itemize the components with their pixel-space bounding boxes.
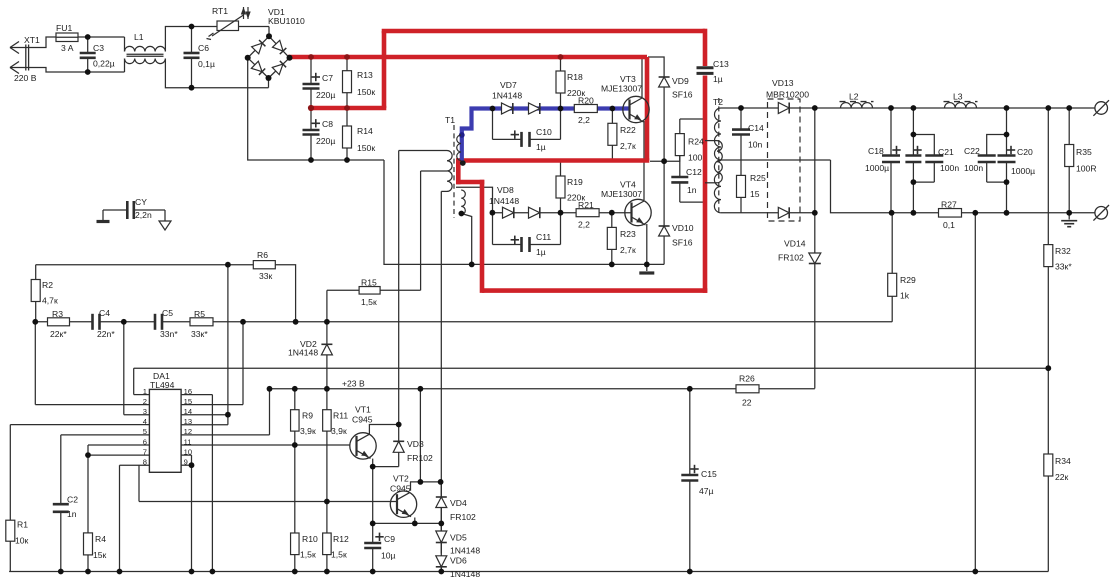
svg-text:VT2: VT2 <box>393 474 409 484</box>
svg-text:1µ: 1µ <box>536 247 546 257</box>
svg-text:10к: 10к <box>15 536 29 546</box>
svg-text:C6: C6 <box>198 43 209 53</box>
svg-text:R21: R21 <box>578 200 594 210</box>
svg-text:220µ: 220µ <box>316 136 335 146</box>
svg-text:VD3: VD3 <box>407 439 424 449</box>
svg-text:VD10: VD10 <box>672 223 694 233</box>
svg-text:10n: 10n <box>748 140 763 150</box>
svg-text:C9: C9 <box>384 534 395 544</box>
svg-text:SF16: SF16 <box>672 90 693 100</box>
svg-text:C15: C15 <box>701 469 717 479</box>
svg-text:VD4: VD4 <box>450 498 467 508</box>
svg-text:220 В: 220 В <box>14 73 37 83</box>
svg-text:3,9к: 3,9к <box>300 426 316 436</box>
svg-text:0,22µ: 0,22µ <box>93 59 115 69</box>
svg-text:1N4148: 1N4148 <box>492 91 522 101</box>
svg-text:R13: R13 <box>357 70 373 80</box>
svg-text:KBU1010: KBU1010 <box>268 16 305 26</box>
svg-text:1µ: 1µ <box>713 74 723 84</box>
svg-text:4,7к: 4,7к <box>42 296 58 306</box>
svg-text:R6: R6 <box>257 250 268 260</box>
svg-text:2,7к: 2,7к <box>620 141 636 151</box>
svg-text:1N4148: 1N4148 <box>288 348 318 358</box>
svg-text:T1: T1 <box>445 115 455 125</box>
svg-text:C11: C11 <box>536 232 551 242</box>
svg-text:22к*: 22к* <box>50 329 67 339</box>
svg-text:R5: R5 <box>194 309 205 319</box>
svg-text:R12: R12 <box>333 534 349 544</box>
svg-text:3,9к: 3,9к <box>331 426 347 436</box>
svg-text:C3: C3 <box>93 43 104 53</box>
svg-text:+23 В: +23 В <box>342 379 365 389</box>
svg-text:T2: T2 <box>713 97 723 107</box>
svg-text:220µ: 220µ <box>316 90 335 100</box>
svg-text:R14: R14 <box>357 126 373 136</box>
svg-text:13: 13 <box>184 417 192 426</box>
svg-text:C14: C14 <box>748 123 764 133</box>
svg-text:C20: C20 <box>1017 147 1033 157</box>
svg-text:MJE13007: MJE13007 <box>601 84 642 94</box>
svg-text:2: 2 <box>143 397 147 406</box>
svg-text:C945: C945 <box>352 415 373 425</box>
svg-text:VD5: VD5 <box>450 533 467 543</box>
svg-text:1k: 1k <box>900 291 910 301</box>
svg-text:2,2: 2,2 <box>578 115 590 125</box>
svg-text:1n: 1n <box>67 509 77 519</box>
svg-text:4: 4 <box>143 417 147 426</box>
svg-text:1N4148: 1N4148 <box>489 196 519 206</box>
svg-text:R11: R11 <box>333 411 348 421</box>
svg-text:1000µ: 1000µ <box>1011 166 1035 176</box>
svg-text:R24: R24 <box>688 137 704 147</box>
svg-text:VT3: VT3 <box>620 74 636 84</box>
svg-text:33n*: 33n* <box>160 329 178 339</box>
svg-text:R23: R23 <box>620 229 636 239</box>
svg-text:3: 3 <box>143 407 147 416</box>
svg-text:1: 1 <box>143 387 147 396</box>
svg-text:14: 14 <box>184 407 192 416</box>
svg-text:R25: R25 <box>750 173 766 183</box>
svg-text:6: 6 <box>143 437 147 446</box>
svg-text:22n*: 22n* <box>97 329 115 339</box>
svg-text:C22: C22 <box>964 146 980 156</box>
svg-text:47µ: 47µ <box>699 486 714 496</box>
svg-text:VD6: VD6 <box>450 556 467 566</box>
svg-text:8: 8 <box>143 458 147 467</box>
svg-text:FR102: FR102 <box>450 512 476 522</box>
svg-text:R29: R29 <box>900 275 916 285</box>
svg-text:VT1: VT1 <box>355 405 371 415</box>
svg-text:R20: R20 <box>578 96 594 106</box>
svg-text:2,2: 2,2 <box>578 220 590 230</box>
svg-text:R22: R22 <box>620 125 636 135</box>
svg-text:MBR10200: MBR10200 <box>766 90 809 100</box>
svg-text:33к: 33к <box>259 271 273 281</box>
svg-text:100n: 100n <box>964 163 983 173</box>
svg-text:R34: R34 <box>1055 456 1071 466</box>
svg-text:C10: C10 <box>536 127 552 137</box>
svg-text:C13: C13 <box>713 59 729 69</box>
svg-text:VD9: VD9 <box>672 76 689 86</box>
svg-text:1µ: 1µ <box>536 142 546 152</box>
svg-text:VD14: VD14 <box>784 239 806 249</box>
svg-text:1N4148: 1N4148 <box>450 569 480 579</box>
svg-text:2,2n: 2,2n <box>135 210 152 220</box>
svg-text:15к: 15к <box>93 550 107 560</box>
svg-text:100: 100 <box>688 153 703 163</box>
svg-text:10µ: 10µ <box>381 551 396 561</box>
svg-text:1N4148: 1N4148 <box>450 546 480 556</box>
svg-text:R26: R26 <box>739 374 755 384</box>
svg-text:VT4: VT4 <box>620 180 636 190</box>
svg-text:FU1: FU1 <box>56 23 72 33</box>
svg-text:R32: R32 <box>1055 246 1071 256</box>
svg-text:9: 9 <box>184 458 188 467</box>
svg-text:33к*: 33к* <box>1055 262 1072 272</box>
svg-text:R35: R35 <box>1076 147 1092 157</box>
svg-text:R2: R2 <box>42 280 53 290</box>
svg-text:C8: C8 <box>322 119 333 129</box>
svg-text:R19: R19 <box>567 177 583 187</box>
svg-text:L3: L3 <box>953 92 963 102</box>
svg-text:C5: C5 <box>162 308 173 318</box>
svg-text:FR102: FR102 <box>407 453 433 463</box>
svg-text:C4: C4 <box>99 308 110 318</box>
svg-text:16: 16 <box>184 387 192 396</box>
svg-text:R4: R4 <box>95 534 106 544</box>
svg-text:150к: 150к <box>357 87 375 97</box>
svg-text:R10: R10 <box>302 534 318 544</box>
svg-text:C18: C18 <box>868 146 884 156</box>
svg-text:R1: R1 <box>17 520 28 530</box>
svg-text:VD7: VD7 <box>500 80 517 90</box>
svg-text:R27: R27 <box>941 200 957 210</box>
svg-text:100R: 100R <box>1076 164 1097 174</box>
svg-text:15: 15 <box>750 189 760 199</box>
svg-text:C7: C7 <box>322 73 333 83</box>
svg-text:RT1: RT1 <box>212 6 228 16</box>
svg-text:1,5к: 1,5к <box>361 297 377 307</box>
svg-text:L1: L1 <box>134 32 144 42</box>
svg-text:CY: CY <box>135 197 147 207</box>
svg-text:R15: R15 <box>361 278 377 288</box>
svg-text:R9: R9 <box>302 411 313 421</box>
svg-text:2,7к: 2,7к <box>620 245 636 255</box>
svg-text:1000µ: 1000µ <box>865 163 889 173</box>
svg-text:SF16: SF16 <box>672 238 693 248</box>
svg-text:0,1: 0,1 <box>943 220 955 230</box>
svg-text:3 A: 3 A <box>61 43 74 53</box>
svg-text:VD8: VD8 <box>497 185 514 195</box>
svg-text:11: 11 <box>184 437 192 446</box>
svg-text:22к: 22к <box>1055 472 1069 482</box>
svg-text:TL494: TL494 <box>150 380 175 390</box>
svg-text:1,5к: 1,5к <box>331 550 347 560</box>
svg-text:7: 7 <box>143 447 147 456</box>
svg-text:22: 22 <box>742 398 752 408</box>
svg-text:C2: C2 <box>67 495 78 505</box>
svg-text:12: 12 <box>184 427 192 436</box>
svg-text:C12: C12 <box>686 167 702 177</box>
svg-text:R3: R3 <box>52 309 63 319</box>
svg-text:33к*: 33к* <box>191 329 208 339</box>
svg-text:VD13: VD13 <box>772 78 794 88</box>
svg-text:FR102: FR102 <box>778 253 804 263</box>
svg-text:1,5к: 1,5к <box>300 550 316 560</box>
svg-text:100n: 100n <box>940 163 959 173</box>
svg-text:C945: C945 <box>390 484 411 494</box>
svg-text:C21: C21 <box>938 147 954 157</box>
svg-text:0,1µ: 0,1µ <box>198 59 215 69</box>
svg-text:15: 15 <box>184 397 192 406</box>
svg-text:R18: R18 <box>567 72 583 82</box>
svg-text:5: 5 <box>143 427 147 436</box>
svg-text:XT1: XT1 <box>24 35 40 45</box>
svg-text:1n: 1n <box>687 185 697 195</box>
svg-text:L2: L2 <box>849 92 859 102</box>
svg-text:10: 10 <box>184 447 192 456</box>
svg-text:MJE13007: MJE13007 <box>601 189 642 199</box>
svg-text:150к: 150к <box>357 143 375 153</box>
